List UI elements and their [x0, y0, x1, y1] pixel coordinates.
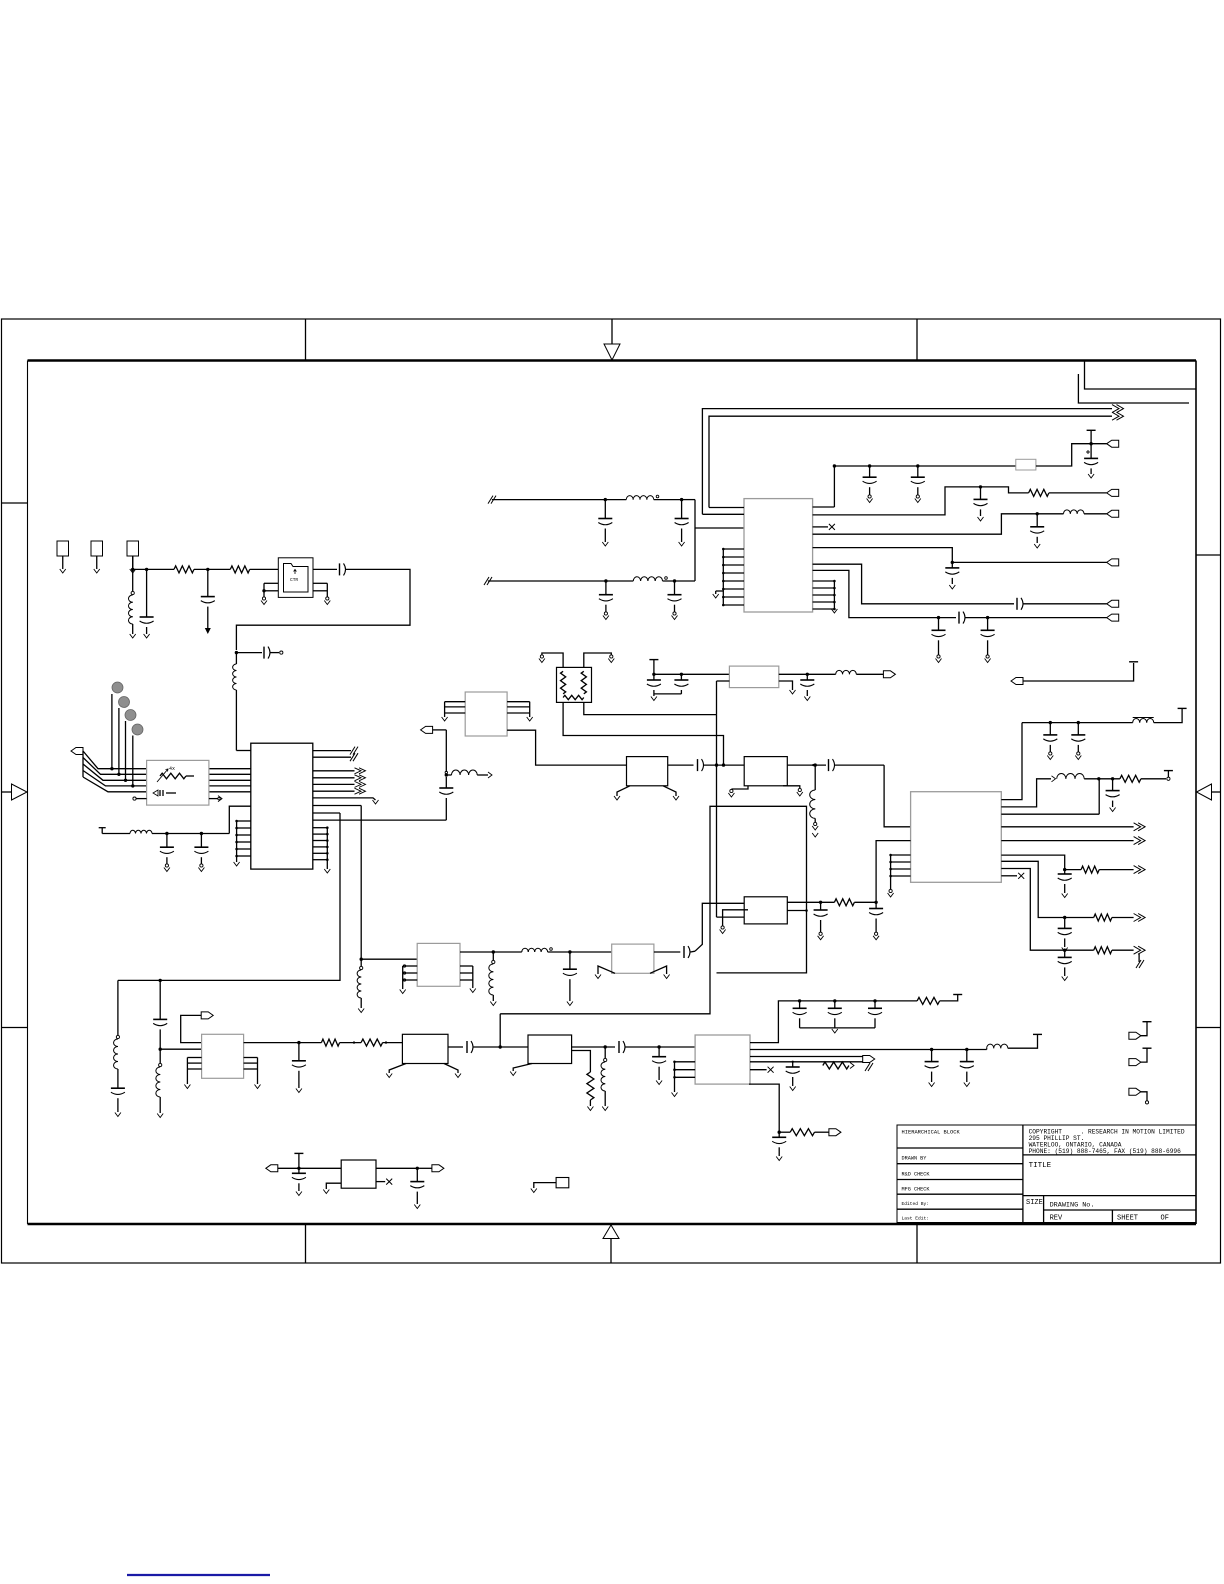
flag U3 in [181, 1012, 214, 1043]
U2 pin row6 [813, 570, 956, 619]
wire cap bank rail [798, 999, 917, 1002]
capacitor C50 leg [153, 980, 167, 1051]
U3 right stubs [244, 1058, 261, 1089]
capacitor C33 series [439, 777, 453, 820]
svg-text:HIERARCHICAL BLOCK: HIERARCHICAL BLOCK [902, 1130, 961, 1136]
U3 left stubs [184, 1058, 201, 1089]
inductor L5 [1064, 510, 1107, 514]
filter U7 [528, 1035, 572, 1064]
svg-text:DRAWING No.: DRAWING No. [1050, 1202, 1095, 1210]
capacitor C15 [668, 579, 682, 619]
inductor L14 [987, 1034, 1042, 1049]
wire R1 to C junction [194, 568, 230, 571]
capacitor C25 [945, 562, 959, 589]
capacitor C3 [201, 569, 215, 634]
inductor L10 [1057, 773, 1120, 780]
wire to FL2 [654, 673, 730, 676]
mixer U8 [695, 1035, 750, 1084]
capacitor C61 [828, 1001, 842, 1028]
U8 pin cap bank [750, 1001, 800, 1043]
capacitor C54 series [467, 1041, 528, 1053]
flag bb out [420, 1165, 444, 1172]
capacitor C27 series [959, 612, 1107, 624]
U12 gnd stub left [728, 786, 748, 797]
U4b out wire [448, 1046, 463, 1048]
capacitor C41 [1071, 723, 1085, 760]
flag pwr2 [1129, 1048, 1152, 1065]
svg-text:REV: REV [1050, 1215, 1063, 1223]
transformer T1 [557, 667, 592, 702]
hierarchical block tab [1085, 362, 1197, 390]
svg-text:Edited By:: Edited By: [902, 1201, 930, 1207]
mixer U4b [402, 1034, 448, 1063]
flag if out [829, 1129, 841, 1136]
polarized capacitor C22 [1084, 430, 1098, 478]
inductor L12 shunt [489, 952, 496, 1006]
U7 gnd stub [510, 1064, 532, 1076]
wire riser mix [445, 730, 448, 777]
test point TP2 [91, 541, 103, 573]
U9 pin row b [1001, 776, 1055, 807]
title block [897, 1125, 1196, 1223]
capacitor C21 [911, 466, 925, 503]
capacitor C28 [932, 618, 946, 663]
inductor L8 shunt [810, 765, 818, 837]
diagonal jog [695, 903, 744, 951]
FL1 bottom pins [133, 796, 222, 802]
U2 nc pin [813, 524, 835, 530]
wire2 rx line [484, 577, 695, 585]
flag lo [863, 1056, 875, 1072]
capacitor C47 [869, 902, 883, 940]
capacitor C4 series [340, 563, 346, 575]
U1 pin wire w arrow [313, 798, 379, 804]
svg-text:Last Edit:: Last Edit: [902, 1216, 930, 1222]
R3 stub right [787, 909, 808, 912]
coil leg 2 [156, 1049, 163, 1117]
wire into U9 [884, 765, 911, 827]
flag FL2 out [883, 671, 895, 678]
svg-text:4x: 4x [169, 766, 175, 772]
CTR right pin [313, 583, 330, 604]
U9 chevron row1 [1001, 823, 1145, 831]
wire elbow below tab [1078, 374, 1189, 403]
capacitor C71 [410, 1168, 424, 1208]
wire shield loop [500, 806, 806, 1014]
capacitor C29 [981, 618, 995, 663]
capacitor C31 [654, 674, 689, 694]
capacitor C66 [772, 1132, 786, 1160]
flag row3 [1107, 510, 1119, 517]
svg-text:R&D CHECK: R&D CHECK [902, 1171, 931, 1177]
resistor R18 [779, 1129, 829, 1136]
FL2 lower-right pin [779, 681, 796, 694]
U8 main out [750, 1048, 987, 1051]
U12 out wire [787, 763, 826, 766]
U9 pin vco [1001, 723, 1022, 800]
U2 pin row5 [813, 564, 1014, 604]
U9 nc pin [1001, 873, 1024, 879]
wire loop drop [499, 1014, 501, 1047]
capacitor C53 [292, 1043, 306, 1093]
capacitor C40 [1043, 723, 1057, 760]
resistor R10 [1094, 914, 1145, 922]
U9 chevron row2 [1001, 837, 1145, 845]
wire R5 to flag [1036, 442, 1107, 466]
U8 bottom leg [749, 1084, 781, 1134]
bus wire lower [709, 412, 1124, 507]
capacitor C23 [974, 487, 988, 521]
svg-text:PHONE: (519) 888-7465, FAX (51: PHONE: (519) 888-7465, FAX (519) 888-699… [1029, 1148, 1182, 1155]
wire riser pin c [1001, 779, 1099, 814]
capacitor C60 [793, 1001, 807, 1028]
capacitor C62 [868, 1001, 882, 1028]
wire TP3 to R1 [133, 568, 174, 570]
U6 out wire [654, 951, 680, 953]
resistor R16 [917, 995, 962, 1005]
resistor R5 block [1016, 459, 1036, 470]
small box J1 [531, 1178, 569, 1193]
capacitor C55 series [619, 1041, 695, 1053]
wire riser FL2 [716, 681, 718, 715]
header pin dots [110, 682, 143, 788]
node junction [235, 651, 238, 654]
U6 gnd stubs [595, 966, 670, 979]
U1 offpage chevrons [313, 768, 366, 794]
capacitor C65 [786, 1061, 800, 1091]
resistor R17 [823, 1062, 854, 1069]
U1 pin long wire east [313, 819, 447, 821]
resistor R15 [361, 1039, 402, 1046]
U4 left stubs [400, 965, 418, 994]
inductor at TP3 node [128, 569, 135, 638]
U2 pin row2 [813, 485, 1029, 515]
U4b gnd stubs [386, 1064, 461, 1078]
antenna input network [99, 806, 251, 835]
T1 top lead right [584, 653, 615, 667]
flag row5 [1107, 600, 1119, 607]
IC U2 [744, 499, 813, 612]
capacitor C11 [194, 834, 208, 872]
filter U3 [202, 1034, 244, 1078]
resistor R1 [174, 566, 194, 573]
wire R2 to CTR [250, 568, 279, 570]
flag supply [1011, 662, 1138, 685]
U1 left pin cluster [234, 820, 251, 866]
U11 out wire [668, 764, 694, 766]
U5 out wire [376, 1167, 420, 1170]
capacitor C5 tap [236, 647, 283, 659]
drawing frame and border ticks [2, 319, 1222, 1263]
capacitor C45 [1058, 950, 1072, 980]
wire1 rx line [488, 496, 607, 504]
capacitor C42 [1106, 779, 1120, 812]
bus filter to U1 [209, 769, 251, 792]
supply T-bar [649, 660, 658, 676]
test point TP1 [57, 541, 69, 573]
resistor R11 [1094, 946, 1145, 968]
capacitor C43 [1058, 870, 1072, 898]
resistor R6 [1029, 489, 1107, 496]
capacitor C46 [814, 902, 828, 940]
inductor L11 shunt [357, 959, 364, 1012]
svg-text:DRAWN BY: DRAWN BY [902, 1156, 928, 1162]
inductor L2 series [233, 653, 237, 751]
capacitor C24 [1030, 514, 1044, 548]
wire riser T1 lead [716, 715, 718, 918]
svg-text:MFG CHECK: MFG CHECK [902, 1187, 931, 1193]
wire C4 to corner [236, 569, 410, 650]
capacitor C13 [675, 500, 689, 546]
T1 bottom lead left [563, 702, 723, 765]
IC U9 [911, 792, 1002, 883]
svg-text:SIZE: SIZE [1026, 1199, 1043, 1207]
U7 res leg [572, 1051, 594, 1111]
U1 pin to rail B [313, 812, 340, 814]
bead to tbar [1164, 771, 1173, 781]
svg-text:TITLE: TITLE [1029, 1162, 1052, 1170]
U4 right stubs [460, 966, 476, 993]
inductor L7 tap [446, 770, 492, 778]
resistor R8 [1120, 775, 1166, 782]
amp U12 [744, 757, 787, 786]
wire CTR out [313, 568, 337, 570]
capacitor C64 [960, 1050, 974, 1087]
test point TP3 [127, 541, 139, 573]
U7 coil leg [601, 1047, 608, 1111]
inductor L3 [605, 495, 695, 501]
flag row6 [1107, 614, 1119, 621]
amp R3 [744, 897, 787, 924]
U5 nc stub [376, 1179, 392, 1185]
U2 left pin cluster [713, 548, 744, 607]
capacitor C51 [563, 952, 577, 1006]
IC U1 [251, 743, 313, 869]
amp U11 [627, 757, 668, 786]
wire balun riser [695, 500, 744, 581]
U8 nc pin [750, 1067, 774, 1073]
wire K rail [1022, 721, 1133, 724]
U1 pin to rail A [313, 805, 361, 807]
capacitor C10 [160, 834, 174, 872]
U2b side pins [442, 702, 533, 721]
bus wire upper [702, 405, 1123, 515]
wire U2b to chain [507, 730, 626, 765]
capacitor C14 [599, 581, 613, 620]
CTR left pin [261, 583, 278, 604]
rail B elbow [118, 813, 340, 982]
U3 out wire [244, 1041, 322, 1044]
left coil leg [111, 980, 125, 1116]
U12 gnd stub right [783, 786, 803, 796]
capacitor C30 [647, 674, 661, 700]
wire to U3 pin2 [160, 1048, 201, 1050]
cap bank bus [800, 1028, 875, 1033]
U9 pin row f [1001, 869, 1093, 952]
U4 out wire [460, 950, 522, 953]
resistor R14 [321, 1039, 361, 1046]
U1 nc pins [313, 747, 358, 762]
U5 gnd stub [323, 1183, 341, 1193]
inductor L13 [522, 948, 612, 954]
U2 pin row3 [813, 512, 1064, 534]
U9 left pin cluster [888, 854, 911, 897]
flag pwr3 [1129, 1088, 1149, 1104]
flag bb in [266, 1165, 341, 1172]
svg-text:OF: OF [1161, 1215, 1169, 1223]
FL2 right wire [779, 673, 836, 676]
inductor L6 [836, 670, 884, 674]
U4 regulator [417, 943, 460, 986]
svg-text:SHEET: SHEET [1117, 1215, 1138, 1223]
R3 gnd stub [720, 910, 748, 934]
resistor R9 [1081, 866, 1145, 874]
capacitor C52 series [684, 946, 695, 958]
U9 pin row d [1001, 855, 1081, 871]
filter U5 [341, 1160, 376, 1188]
U2 pin vcc node [813, 464, 837, 507]
capacitor C56 [652, 1047, 666, 1085]
filter block FL2 [729, 666, 778, 688]
U1 right pin cluster [313, 826, 331, 873]
wire R3 out [787, 901, 878, 904]
RC filter block FL1 (4x) [147, 760, 209, 805]
wire into U1 top-left [236, 750, 250, 752]
flag mix in [421, 726, 447, 733]
capacitor C63 [925, 1050, 939, 1087]
wire TP3 node [131, 556, 134, 571]
flag row4 [1107, 559, 1119, 566]
capacitor C35 series [812, 759, 884, 771]
U8 lo pair [750, 1057, 863, 1062]
filter U2b [465, 692, 507, 736]
T1 bottom lead right [584, 702, 717, 714]
capacitor C70 tbar [292, 1153, 306, 1195]
capacitor C12 [598, 500, 612, 546]
capacitor at TP3 node [140, 568, 154, 638]
wire into R3 pin3 [717, 916, 745, 918]
capacitor C26 series [1017, 598, 1107, 610]
U6 regulator [612, 944, 654, 973]
T1 top lead left [539, 653, 563, 667]
capacitor C20 [863, 466, 877, 503]
capacitor C44 [1058, 918, 1072, 952]
U11 gnd stubs [614, 786, 679, 800]
rail A to U4 [360, 806, 418, 961]
flag VCC [1107, 440, 1119, 447]
FL2 lower-left pin [717, 680, 730, 682]
connector flag and bus fan [71, 748, 147, 792]
inductor L9 [1133, 708, 1187, 722]
resistor R2 [230, 566, 249, 573]
U9 pin row e [1001, 861, 1093, 919]
U2 right lower cluster [813, 580, 838, 613]
U9 pin left b [876, 841, 911, 903]
oscillator CTR U10 [278, 558, 313, 598]
hyperlink underline [127, 1574, 270, 1576]
U7 out wire [572, 1045, 615, 1048]
svg-text:CTR: CTR [290, 577, 298, 583]
U2 pin row4 [813, 548, 1107, 565]
capacitor C32 [800, 674, 814, 700]
flag row2 [1107, 489, 1119, 496]
U8 left stubs [672, 1061, 696, 1097]
wire vcc rail [834, 464, 1015, 467]
capacitor C34 series [698, 759, 745, 771]
resistor R12 [834, 899, 876, 906]
flag pwr1 [1129, 1022, 1152, 1039]
